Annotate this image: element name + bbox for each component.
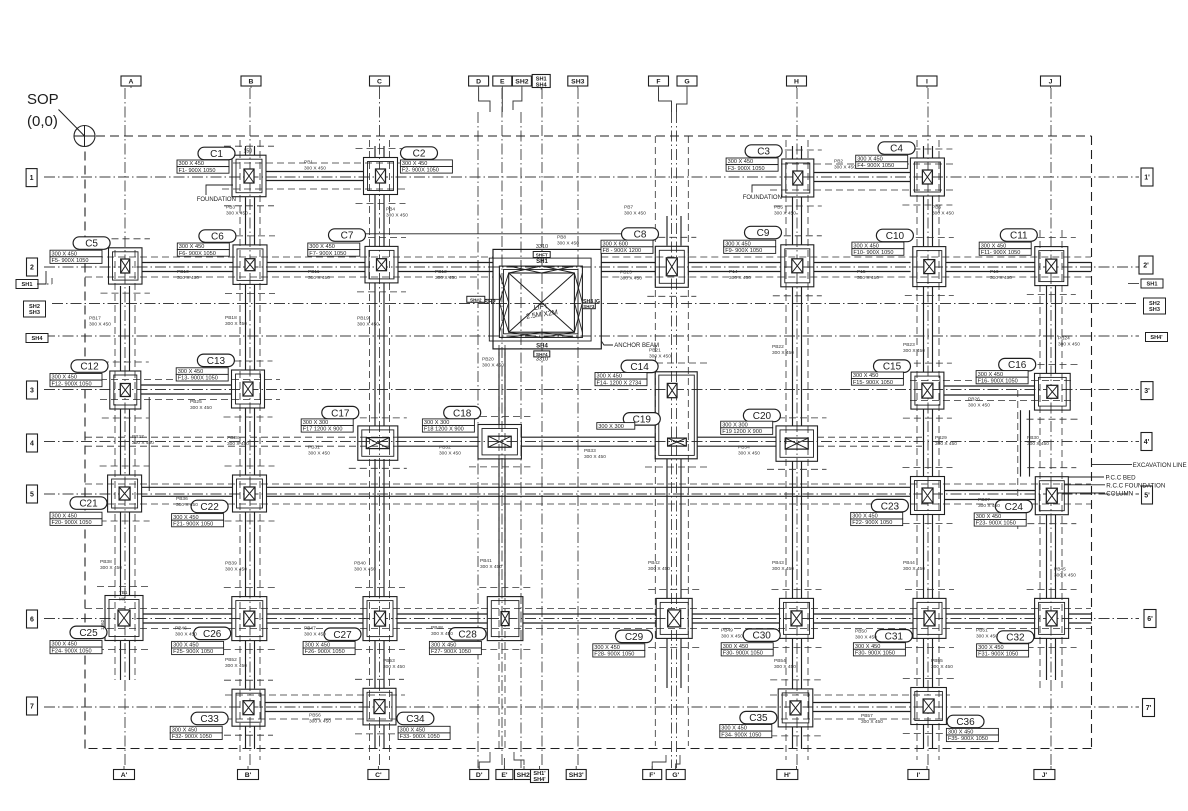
svg-text:PB26: PB26 bbox=[968, 396, 980, 402]
svg-text:PB25: PB25 bbox=[190, 399, 202, 405]
svg-text:150: 150 bbox=[244, 149, 253, 155]
svg-text:300 X 300: 300 X 300 bbox=[722, 422, 748, 428]
svg-text:300 X 450: 300 X 450 bbox=[383, 664, 405, 670]
svg-text:C12: C12 bbox=[80, 362, 99, 373]
svg-text:J: J bbox=[1049, 79, 1053, 86]
svg-text:300 X 450: 300 X 450 bbox=[932, 210, 954, 216]
svg-text:FOUNDATION: FOUNDATION bbox=[743, 195, 782, 201]
svg-text:300 X 450: 300 X 450 bbox=[308, 450, 330, 456]
svg-text:PB55: PB55 bbox=[931, 658, 943, 664]
svg-text:F35- 900X 1050: F35- 900X 1050 bbox=[948, 736, 988, 742]
svg-text:2: 2 bbox=[30, 265, 34, 272]
svg-text:PB43: PB43 bbox=[772, 560, 784, 566]
svg-text:D: D bbox=[476, 79, 481, 86]
svg-text:300 X 450: 300 X 450 bbox=[990, 275, 1012, 281]
svg-text:300 X 450: 300 X 450 bbox=[480, 564, 502, 570]
svg-text:300 X 450: 300 X 450 bbox=[624, 210, 646, 216]
svg-text:6: 6 bbox=[30, 617, 34, 624]
svg-text:C19: C19 bbox=[633, 415, 652, 426]
svg-text:SH4': SH4' bbox=[1150, 335, 1163, 341]
svg-text:300 X 450: 300 X 450 bbox=[172, 728, 198, 734]
svg-text:300 X 450: 300 X 450 bbox=[903, 566, 925, 572]
svg-text:E: E bbox=[500, 79, 505, 86]
svg-text:300 X 450: 300 X 450 bbox=[738, 450, 760, 456]
svg-text:300 X 450: 300 X 450 bbox=[948, 730, 974, 736]
svg-text:PB36: PB36 bbox=[176, 496, 188, 502]
svg-text:C26: C26 bbox=[203, 629, 222, 640]
svg-text:300 X 450: 300 X 450 bbox=[853, 243, 879, 249]
svg-text:300 X 450: 300 X 450 bbox=[435, 275, 457, 281]
svg-text:C36: C36 bbox=[956, 717, 975, 728]
svg-text:PB6: PB6 bbox=[932, 204, 941, 210]
svg-text:300 X 450: 300 X 450 bbox=[178, 369, 204, 375]
svg-text:C35: C35 bbox=[749, 713, 768, 724]
svg-text:F5- 900X 1050: F5- 900X 1050 bbox=[52, 258, 89, 264]
svg-text:C16: C16 bbox=[1008, 360, 1027, 371]
svg-text:A': A' bbox=[121, 772, 128, 779]
svg-text:300 X 450: 300 X 450 bbox=[357, 321, 379, 327]
svg-text:300 X 450: 300 X 450 bbox=[772, 350, 794, 356]
svg-text:C9: C9 bbox=[757, 228, 770, 239]
svg-text:SH4: SH4 bbox=[536, 344, 548, 350]
svg-text:300 X 450: 300 X 450 bbox=[225, 663, 247, 669]
svg-text:C20: C20 bbox=[753, 411, 772, 422]
svg-text:P16: P16 bbox=[990, 269, 999, 275]
svg-text:F3- 900X 1050: F3- 900X 1050 bbox=[728, 166, 765, 172]
svg-text:300 X 450: 300 X 450 bbox=[179, 161, 205, 167]
svg-text:F30- 900X 1050: F30- 900X 1050 bbox=[855, 651, 895, 657]
svg-text:300 X 450: 300 X 450 bbox=[855, 634, 877, 640]
svg-text:TB1: TB1 bbox=[119, 590, 128, 595]
svg-text:300 X 300: 300 X 300 bbox=[424, 420, 450, 426]
svg-text:F33- 900X 1050: F33- 900X 1050 bbox=[400, 734, 440, 740]
svg-text:300 X 450: 300 X 450 bbox=[177, 275, 199, 281]
svg-text:C3: C3 bbox=[757, 147, 770, 158]
svg-text:PB52: PB52 bbox=[225, 657, 237, 663]
svg-text:PB21: PB21 bbox=[649, 347, 661, 353]
svg-text:E': E' bbox=[501, 772, 508, 779]
svg-text:300 X 450: 300 X 450 bbox=[482, 362, 504, 368]
svg-text:P15: P15 bbox=[857, 269, 866, 275]
svg-text:300 X 450: 300 X 450 bbox=[439, 450, 461, 456]
svg-text:1': 1' bbox=[1144, 175, 1150, 182]
svg-text:300 X 450: 300 X 450 bbox=[52, 642, 78, 648]
svg-text:7': 7' bbox=[1146, 705, 1152, 712]
svg-text:F27- 900X 1050: F27- 900X 1050 bbox=[431, 649, 471, 655]
svg-text:300 X 450: 300 X 450 bbox=[725, 241, 751, 247]
svg-text:PB57: PB57 bbox=[861, 713, 873, 719]
svg-text:C29: C29 bbox=[625, 632, 644, 643]
svg-text:300 X 450: 300 X 450 bbox=[308, 275, 330, 281]
svg-text:C13: C13 bbox=[207, 356, 226, 367]
svg-text:PB10: PB10 bbox=[177, 269, 189, 275]
svg-text:300 X 450: 300 X 450 bbox=[309, 244, 335, 250]
svg-text:PB45: PB45 bbox=[1054, 566, 1066, 572]
svg-text:F4- 900X 1050: F4- 900X 1050 bbox=[857, 163, 894, 169]
svg-text:300 X 450: 300 X 450 bbox=[903, 348, 925, 354]
svg-text:B: B bbox=[249, 79, 254, 86]
svg-text:300 X 450: 300 X 450 bbox=[852, 514, 878, 520]
svg-text:5: 5 bbox=[30, 492, 34, 499]
svg-text:300 X 450: 300 X 450 bbox=[227, 441, 249, 447]
svg-text:5': 5' bbox=[1144, 493, 1150, 500]
svg-text:300 X 300: 300 X 300 bbox=[303, 420, 329, 426]
svg-text:F16- 900X 1050: F16- 900X 1050 bbox=[978, 378, 1018, 384]
svg-text:300 X 450: 300 X 450 bbox=[968, 402, 990, 408]
svg-text:SH2: SH2 bbox=[484, 300, 496, 306]
svg-text:300 X 450: 300 X 450 bbox=[855, 644, 881, 650]
svg-text:SHFT: SHFT bbox=[536, 253, 548, 258]
svg-text:300 X 450: 300 X 450 bbox=[225, 566, 247, 572]
svg-text:300 X 450: 300 X 450 bbox=[226, 210, 248, 216]
svg-text:300 X 450: 300 X 450 bbox=[1058, 341, 1080, 347]
svg-text:PB42: PB42 bbox=[648, 560, 660, 566]
svg-text:C22: C22 bbox=[200, 502, 219, 513]
svg-text:PB29: PB29 bbox=[935, 435, 947, 441]
svg-text:SH#2: SH#2 bbox=[470, 298, 482, 303]
svg-text:PB40: PB40 bbox=[354, 560, 366, 566]
svg-text:300 X 450: 300 X 450 bbox=[597, 374, 623, 380]
svg-text:300 X 450: 300 X 450 bbox=[721, 633, 743, 639]
svg-text:1362: 1362 bbox=[100, 619, 105, 630]
svg-text:F30- 900X 1050: F30- 900X 1050 bbox=[723, 651, 763, 657]
svg-text:300 X 450: 300 X 450 bbox=[173, 515, 199, 521]
svg-text:300 X 450: 300 X 450 bbox=[1054, 572, 1076, 578]
svg-text:C34: C34 bbox=[406, 714, 425, 725]
svg-text:7: 7 bbox=[30, 704, 34, 711]
svg-text:PB18: PB18 bbox=[225, 315, 237, 321]
svg-text:300 X 450: 300 X 450 bbox=[557, 240, 579, 246]
svg-text:PB4: PB4 bbox=[386, 206, 395, 212]
svg-text:SH2: SH2 bbox=[1149, 301, 1160, 307]
svg-text:F14- 1200 X 2734: F14- 1200 X 2734 bbox=[597, 380, 642, 386]
svg-text:PB24: PB24 bbox=[1058, 335, 1070, 341]
svg-text:300 X 450: 300 X 450 bbox=[978, 372, 1004, 378]
svg-text:F13- 900X 1050: F13- 900X 1050 bbox=[178, 376, 218, 382]
svg-text:A: A bbox=[129, 79, 134, 86]
svg-text:300 X 450: 300 X 450 bbox=[386, 212, 408, 218]
svg-text:EXCAVATION LINE: EXCAVATION LINE bbox=[1133, 462, 1187, 469]
svg-text:300 X 450: 300 X 450 bbox=[774, 210, 796, 216]
svg-text:F20- 900X 1050: F20- 900X 1050 bbox=[52, 520, 92, 526]
svg-text:300 X 450: 300 X 450 bbox=[402, 161, 428, 167]
svg-text:3: 3 bbox=[30, 388, 34, 395]
svg-text:PB11: PB11 bbox=[308, 269, 320, 275]
svg-text:SH4: SH4 bbox=[32, 336, 44, 342]
svg-text:300 X 450: 300 X 450 bbox=[935, 441, 957, 447]
svg-text:C32: C32 bbox=[1006, 633, 1025, 644]
svg-text:G: G bbox=[684, 79, 689, 86]
svg-text:PB12: PB12 bbox=[435, 269, 447, 275]
svg-text:F12- 900X 1050: F12- 900X 1050 bbox=[52, 381, 92, 387]
svg-text:2': 2' bbox=[1143, 263, 1149, 270]
svg-text:C25: C25 bbox=[79, 628, 98, 639]
svg-text:3': 3' bbox=[1144, 388, 1150, 395]
svg-text:300 X 450: 300 X 450 bbox=[723, 644, 749, 650]
svg-text:F10- 900X 1050: F10- 900X 1050 bbox=[853, 250, 893, 256]
svg-text:J': J' bbox=[1042, 772, 1048, 779]
svg-text:SH1: SH1 bbox=[536, 259, 548, 265]
svg-text:3310: 3310 bbox=[536, 244, 548, 250]
svg-text:B': B' bbox=[245, 772, 252, 779]
svg-text:300 X 450: 300 X 450 bbox=[179, 244, 205, 250]
svg-text:300 X 450: 300 X 450 bbox=[584, 454, 606, 460]
svg-text:300 X 600: 300 X 600 bbox=[603, 241, 629, 247]
svg-text:H': H' bbox=[784, 772, 791, 779]
svg-text:F7- 900X 1050: F7- 900X 1050 bbox=[309, 251, 346, 257]
svg-text:300 X 450: 300 X 450 bbox=[981, 243, 1007, 249]
svg-text:300 X 450: 300 X 450 bbox=[729, 275, 751, 281]
svg-text:SH2: SH2 bbox=[515, 79, 528, 86]
svg-text:FOUNDATION: FOUNDATION bbox=[197, 197, 236, 203]
svg-text:PB19: PB19 bbox=[357, 315, 369, 321]
svg-text:300 X 450: 300 X 450 bbox=[225, 321, 247, 327]
svg-text:PB34: PB34 bbox=[738, 444, 750, 450]
svg-text:G': G' bbox=[672, 772, 679, 779]
svg-text:C17: C17 bbox=[331, 408, 350, 419]
svg-text:300 X 450: 300 X 450 bbox=[132, 440, 154, 446]
svg-text:C21: C21 bbox=[79, 499, 98, 510]
svg-text:PB27: PB27 bbox=[132, 434, 144, 440]
svg-text:C7: C7 bbox=[341, 231, 354, 242]
svg-text:F8 - 900X 1200: F8 - 900X 1200 bbox=[603, 248, 642, 254]
svg-text:F25- 900X 1050: F25- 900X 1050 bbox=[173, 649, 213, 655]
svg-text:C8: C8 bbox=[634, 230, 647, 241]
svg-text:PB31: PB31 bbox=[308, 444, 320, 450]
svg-text:SH2: SH2 bbox=[29, 304, 40, 310]
svg-text:C30: C30 bbox=[753, 631, 772, 642]
svg-text:F15- 900X 1050: F15- 900X 1050 bbox=[853, 380, 893, 386]
svg-text:PB38: PB38 bbox=[100, 559, 112, 565]
svg-text:PB3: PB3 bbox=[226, 204, 235, 210]
svg-text:F19 1200 X 900: F19 1200 X 900 bbox=[722, 429, 762, 435]
svg-text:PB2: PB2 bbox=[834, 158, 843, 164]
svg-text:300 X 450: 300 X 450 bbox=[834, 164, 856, 170]
svg-text:300 X 450: 300 X 450 bbox=[431, 643, 457, 649]
svg-text:4': 4' bbox=[1144, 439, 1150, 446]
svg-text:300 X 450: 300 X 450 bbox=[431, 631, 453, 637]
svg-text:300 X 450: 300 X 450 bbox=[305, 643, 331, 649]
svg-text:SH3': SH3' bbox=[569, 772, 584, 779]
svg-text:300 X 450: 300 X 450 bbox=[400, 728, 426, 734]
svg-text:PB53: PB53 bbox=[383, 658, 395, 664]
svg-text:PB49: PB49 bbox=[721, 627, 733, 633]
svg-text:300 X 450: 300 X 450 bbox=[620, 275, 642, 281]
svg-text:PB13: PB13 bbox=[620, 269, 632, 275]
svg-text:PB54: PB54 bbox=[774, 658, 786, 664]
svg-text:300 X 450: 300 X 450 bbox=[175, 631, 197, 637]
svg-text:M6: M6 bbox=[119, 597, 126, 602]
svg-text:F6- 900X 1050: F6- 900X 1050 bbox=[179, 251, 216, 257]
svg-text:300 X 450: 300 X 450 bbox=[52, 375, 78, 381]
svg-text:1: 1 bbox=[30, 175, 34, 182]
svg-text:C33: C33 bbox=[200, 714, 219, 725]
svg-text:SH3: SH3 bbox=[1149, 307, 1160, 313]
svg-text:PB48: PB48 bbox=[431, 625, 443, 631]
svg-text:300 X 450: 300 X 450 bbox=[649, 353, 671, 359]
svg-text:R.C.C FOUNDATION: R.C.C FOUNDATION bbox=[1106, 482, 1165, 489]
svg-text:PB1: PB1 bbox=[304, 159, 313, 165]
svg-text:SH1: SH1 bbox=[22, 282, 33, 288]
svg-text:PB47: PB47 bbox=[304, 625, 316, 631]
svg-text:F24- 900X 1050: F24- 900X 1050 bbox=[52, 648, 92, 654]
svg-text:300 X 450: 300 X 450 bbox=[857, 156, 883, 162]
svg-text:300 X 450: 300 X 450 bbox=[1027, 441, 1049, 447]
svg-text:PB32: PB32 bbox=[439, 444, 451, 450]
svg-text:SH3: SH3 bbox=[29, 310, 40, 316]
svg-text:D': D' bbox=[476, 772, 483, 779]
svg-text:F: F bbox=[656, 79, 660, 86]
svg-text:SH#3: SH#3 bbox=[583, 304, 595, 309]
svg-text:F31- 900X 1050: F31- 900X 1050 bbox=[978, 652, 1018, 658]
svg-text:F26- 900X 1050: F26- 900X 1050 bbox=[305, 649, 345, 655]
svg-text:SH1': SH1' bbox=[533, 771, 546, 777]
svg-text:300 X 450: 300 X 450 bbox=[978, 645, 1004, 651]
svg-text:F23- 900X 1050: F23- 900X 1050 bbox=[976, 521, 1016, 527]
svg-text:P14: P14 bbox=[729, 269, 738, 275]
svg-text:300 X 450: 300 X 450 bbox=[190, 405, 212, 411]
svg-text:6': 6' bbox=[1147, 616, 1153, 623]
svg-text:C24: C24 bbox=[1005, 502, 1024, 513]
svg-text:300 X 450: 300 X 450 bbox=[309, 718, 331, 724]
svg-text:300 X 450: 300 X 450 bbox=[976, 514, 1002, 520]
svg-text:300 X 450: 300 X 450 bbox=[176, 502, 198, 508]
svg-text:300 X 300: 300 X 300 bbox=[598, 424, 624, 430]
svg-text:C5: C5 bbox=[85, 239, 98, 250]
svg-text:C1: C1 bbox=[210, 149, 223, 160]
svg-text:PB17: PB17 bbox=[89, 315, 101, 321]
svg-text:PB56: PB56 bbox=[309, 712, 321, 718]
svg-text:C31: C31 bbox=[885, 631, 904, 642]
svg-text:PB46: PB46 bbox=[175, 625, 187, 631]
svg-text:C10: C10 bbox=[886, 231, 905, 242]
svg-text:300 X 450: 300 X 450 bbox=[354, 566, 376, 572]
svg-text:300 X 450: 300 X 450 bbox=[304, 165, 326, 171]
svg-text:C': C' bbox=[375, 772, 382, 779]
svg-text:F17 1200 X 900: F17 1200 X 900 bbox=[303, 427, 343, 433]
svg-text:SH4: SH4 bbox=[536, 82, 548, 88]
svg-text:4: 4 bbox=[30, 441, 34, 448]
svg-text:PB33: PB33 bbox=[584, 448, 596, 454]
svg-text:(0,0): (0,0) bbox=[27, 113, 58, 130]
svg-text:PB7: PB7 bbox=[624, 204, 633, 210]
svg-text:PB8: PB8 bbox=[557, 234, 566, 240]
svg-text:300 X 450: 300 X 450 bbox=[594, 645, 620, 651]
svg-text:300 X 450: 300 X 450 bbox=[931, 664, 953, 670]
svg-text:SOP: SOP bbox=[27, 91, 59, 108]
svg-text:P.C.C BED: P.C.C BED bbox=[1106, 475, 1137, 482]
svg-text:SH1: SH1 bbox=[1147, 282, 1158, 288]
svg-text:H: H bbox=[794, 79, 799, 86]
svg-text:300 X 450: 300 X 450 bbox=[861, 719, 883, 725]
svg-text:COLUMN: COLUMN bbox=[1106, 491, 1133, 498]
svg-text:I': I' bbox=[917, 772, 921, 779]
svg-text:F22- 900X 1050: F22- 900X 1050 bbox=[852, 520, 892, 526]
svg-text:PB39: PB39 bbox=[225, 560, 237, 566]
svg-text:300 X 450: 300 X 450 bbox=[772, 566, 794, 572]
svg-text:SH#4: SH#4 bbox=[536, 352, 548, 357]
svg-text:300 X 450: 300 X 450 bbox=[857, 275, 879, 281]
svg-text:PB28: PB28 bbox=[227, 435, 239, 441]
svg-text:300 X 450: 300 X 450 bbox=[976, 633, 998, 639]
svg-text:PB44: PB44 bbox=[903, 560, 915, 566]
svg-text:F32- 900X 1050: F32- 900X 1050 bbox=[172, 734, 212, 740]
svg-text:C6: C6 bbox=[211, 232, 224, 243]
svg-text:PB23: PB23 bbox=[903, 342, 915, 348]
svg-text:C28: C28 bbox=[458, 630, 477, 641]
svg-text:F11- 900X 1050: F11- 900X 1050 bbox=[981, 250, 1021, 256]
svg-text:F18 1200 X 900: F18 1200 X 900 bbox=[424, 427, 464, 433]
svg-text:SH2': SH2' bbox=[517, 772, 532, 779]
svg-text:300 X 450: 300 X 450 bbox=[774, 664, 796, 670]
svg-text:PB50: PB50 bbox=[855, 628, 867, 634]
svg-text:PB30: PB30 bbox=[1027, 435, 1039, 441]
svg-text:SH3: SH3 bbox=[571, 79, 584, 86]
svg-text:300 X 450: 300 X 450 bbox=[648, 566, 670, 572]
svg-text:PB20: PB20 bbox=[482, 356, 494, 362]
svg-text:F1- 900X 1050: F1- 900X 1050 bbox=[179, 168, 216, 174]
svg-text:PB5: PB5 bbox=[774, 204, 783, 210]
svg-text:C14: C14 bbox=[630, 362, 649, 373]
svg-text:F9- 900X 1050: F9- 900X 1050 bbox=[725, 248, 762, 254]
svg-text:C2: C2 bbox=[413, 149, 426, 160]
svg-text:C18: C18 bbox=[453, 408, 472, 419]
svg-text:300 X 450: 300 X 450 bbox=[728, 159, 754, 165]
svg-text:PB51: PB51 bbox=[976, 627, 988, 633]
svg-text:300 X 450: 300 X 450 bbox=[52, 251, 78, 257]
svg-text:C27: C27 bbox=[333, 630, 352, 641]
svg-text:F28- 900X 1050: F28- 900X 1050 bbox=[594, 652, 634, 658]
svg-text:I: I bbox=[926, 79, 928, 86]
svg-text:300 X 450: 300 X 450 bbox=[52, 513, 78, 519]
svg-text:300 X 450: 300 X 450 bbox=[721, 726, 747, 732]
svg-text:F2- 900X 1050: F2- 900X 1050 bbox=[402, 168, 439, 174]
svg-text:F21- 900X 1050: F21- 900X 1050 bbox=[173, 521, 213, 527]
svg-text:PB22: PB22 bbox=[772, 344, 784, 350]
svg-text:C4: C4 bbox=[890, 144, 903, 155]
svg-text:SH4': SH4' bbox=[533, 777, 546, 783]
svg-text:C15: C15 bbox=[883, 362, 902, 373]
svg-text:300 X 450: 300 X 450 bbox=[853, 373, 879, 379]
svg-text:PB41: PB41 bbox=[480, 558, 492, 564]
svg-text:C11: C11 bbox=[1010, 231, 1028, 242]
svg-text:300 X 450: 300 X 450 bbox=[100, 565, 122, 571]
svg-text:C: C bbox=[377, 79, 382, 86]
svg-text:300 X 450: 300 X 450 bbox=[173, 643, 199, 649]
svg-text:F34- 900X 1050: F34- 900X 1050 bbox=[721, 732, 761, 738]
svg-text:F': F' bbox=[649, 772, 655, 779]
svg-text:C23: C23 bbox=[881, 501, 900, 512]
svg-text:300 X 450: 300 X 450 bbox=[89, 321, 111, 327]
svg-text:300 X 450: 300 X 450 bbox=[978, 503, 1000, 509]
svg-text:PB37: PB37 bbox=[978, 497, 990, 503]
svg-text:300 X 450: 300 X 450 bbox=[304, 631, 326, 637]
